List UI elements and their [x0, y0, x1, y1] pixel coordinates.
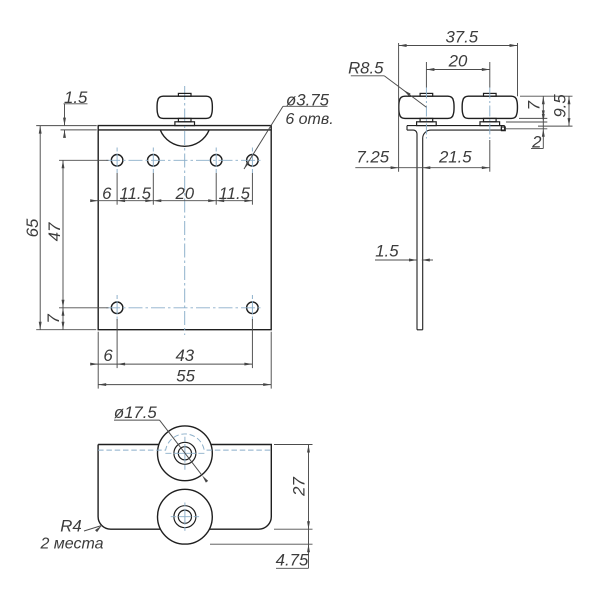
svg-text:R4: R4 [60, 516, 81, 535]
svg-text:1.5: 1.5 [64, 88, 88, 107]
svg-text:7: 7 [44, 314, 63, 324]
svg-text:27: 27 [289, 477, 308, 497]
svg-text:1.5: 1.5 [375, 241, 399, 260]
svg-text:6: 6 [103, 346, 113, 365]
svg-text:7.25: 7.25 [356, 148, 389, 167]
svg-text:ø17.5: ø17.5 [114, 403, 158, 422]
svg-text:6: 6 [102, 184, 112, 203]
svg-text:43: 43 [175, 346, 194, 365]
svg-text:21.5: 21.5 [438, 148, 472, 167]
svg-text:37.5: 37.5 [445, 27, 478, 46]
svg-text:55: 55 [176, 366, 195, 385]
svg-text:20: 20 [448, 51, 468, 70]
svg-text:11.5: 11.5 [119, 184, 151, 203]
svg-text:6 отв.: 6 отв. [285, 111, 333, 128]
svg-text:4.75: 4.75 [276, 550, 309, 569]
svg-text:R8.5: R8.5 [348, 58, 384, 77]
svg-text:7: 7 [524, 100, 543, 110]
svg-text:9.5: 9.5 [550, 94, 569, 118]
svg-text:ø3.75: ø3.75 [286, 90, 330, 109]
svg-text:2 места: 2 места [39, 536, 103, 553]
svg-text:65: 65 [23, 218, 42, 237]
svg-text:11.5: 11.5 [219, 184, 251, 203]
svg-text:20: 20 [174, 184, 194, 203]
svg-text:47: 47 [45, 222, 64, 241]
svg-text:2: 2 [531, 132, 542, 151]
